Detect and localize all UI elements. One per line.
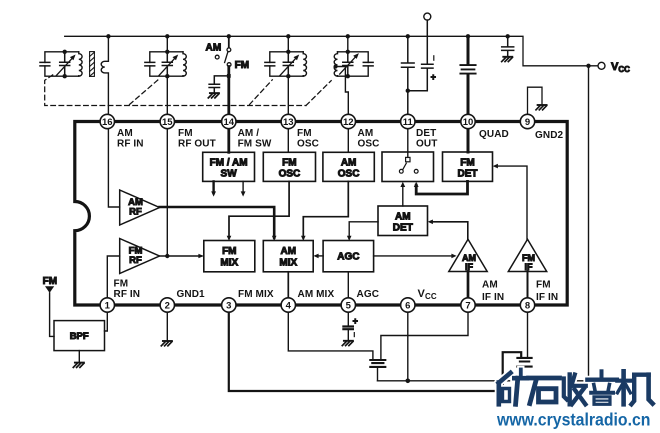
svg-text:AM: AM — [395, 211, 411, 222]
svg-text:FM / AM: FM / AM — [210, 158, 248, 169]
wire: pin 3 FM MIX out long run to FM filter (bold-ish) — [229, 305, 521, 391]
svg-text:7: 7 — [465, 301, 470, 312]
svg-text:FM: FM — [178, 128, 193, 139]
svg-text:AM: AM — [206, 42, 222, 53]
wire: AM DET out left to AGC (arrow down) — [349, 222, 378, 238]
switch S1 AM/FM — [228, 36, 230, 48]
svg-text:RF IN: RF IN — [117, 139, 144, 150]
wire: FM antenna to BPF — [50, 293, 54, 337]
wire: FM IF out to FM DET (arrow left) — [495, 166, 527, 239]
wire: pin 11 to det switch — [407, 129, 409, 158]
svg-text:4: 4 — [286, 301, 292, 312]
svg-text:9: 9 — [525, 117, 530, 128]
wire: AGC to pin 5 — [347, 272, 349, 305]
ground (GND2) — [536, 105, 547, 110]
ceramic filter CF2 (FM 10.7M) — [517, 358, 531, 367]
svg-text:MIX: MIX — [279, 258, 297, 269]
wire: Vcc feed down right side — [588, 66, 590, 381]
svg-text:10: 10 — [463, 117, 474, 128]
svg-text:RF: RF — [129, 207, 142, 218]
dashed gang-capacitor link — [45, 75, 332, 106]
svg-text:DET: DET — [458, 169, 478, 180]
svg-text:FM: FM — [536, 280, 551, 291]
wire: pin 7 to AM filter — [381, 305, 468, 359]
svg-text:IF: IF — [525, 262, 534, 272]
svg-text:RF OUT: RF OUT — [178, 139, 216, 150]
ground (C5) — [342, 341, 353, 346]
capacitor C5 electrolytic (AGC, pin 5) — [347, 305, 349, 340]
svg-text:FM: FM — [460, 158, 474, 169]
amplifier A1 AM RF (triangle) — [120, 190, 160, 225]
wire: pin 1 to BPF — [105, 305, 108, 331]
svg-text:FM: FM — [222, 246, 236, 257]
capacitor (FM tank fixed) — [145, 62, 155, 66]
amplifier A4 FM IF (triangle up) — [508, 239, 546, 271]
AM OSC tank T4: outline (coil left, cap right) — [338, 52, 369, 76]
block AM DET — [378, 206, 428, 236]
svg-text:OSC: OSC — [297, 139, 319, 150]
svg-text:AM /: AM / — [238, 128, 260, 139]
svg-text:OSC: OSC — [338, 169, 360, 180]
wire: SW control stub left (bold arrow) — [212, 181, 214, 193]
ceramic filter CF1 (AM 455k) — [370, 360, 385, 367]
svg-text:MIX: MIX — [220, 258, 238, 269]
svg-text:FM: FM — [43, 276, 58, 287]
block detector switch (pin 11) — [382, 152, 434, 182]
node: Vcc tee dot — [586, 64, 590, 68]
AM antenna tank T1: outline — [45, 52, 79, 76]
wire: coil tap to pin 12 (with jog) — [336, 67, 349, 115]
terminal: AF out open circle — [424, 13, 431, 20]
inductor L4 (FM OSC coil) — [303, 52, 306, 76]
svg-text:DET: DET — [393, 222, 413, 233]
svg-text:QUAD: QUAD — [479, 129, 509, 140]
wire: AM MIX to pin 4 — [287, 272, 289, 305]
wire: pin 14 to FM/AM SW (bold) — [227, 129, 230, 153]
svg-text:IF IN: IF IN — [536, 292, 558, 303]
discriminator X1 (quad detector element, bold) — [467, 36, 470, 114]
variable capacitor (FM tank) — [162, 52, 172, 76]
svg-text:12: 12 — [343, 117, 354, 128]
svg-text:FM: FM — [235, 60, 250, 71]
svg-text:+: + — [431, 72, 436, 82]
wire: AM DET out up to det switch (arrow) — [402, 185, 404, 206]
svg-text:AM: AM — [341, 158, 357, 169]
block AGC — [323, 241, 374, 272]
svg-text:OUT: OUT — [416, 139, 437, 150]
svg-text:FM MIX: FM MIX — [238, 289, 274, 300]
svg-text:AM: AM — [281, 246, 297, 257]
node: AM OSC tank junctions — [346, 50, 350, 54]
svg-text:GND1: GND1 — [177, 289, 206, 300]
svg-text:8: 8 — [525, 301, 530, 312]
node: FM OSC tank junctions — [286, 50, 290, 54]
amplifier A2 FM RF (triangle) — [120, 239, 160, 274]
svg-text:1: 1 — [105, 301, 111, 312]
svg-text:AM: AM — [482, 280, 498, 291]
wire: pin 1 to FM RF input — [107, 256, 119, 305]
svg-text:OSC: OSC — [358, 139, 380, 150]
wire: rail to AM OSC tank top — [347, 36, 349, 52]
svg-text:11: 11 — [403, 117, 414, 128]
pin name labels (bottom row) — [114, 279, 559, 304]
wire: AGC out to AM MIX (arrow left) — [316, 255, 323, 257]
wire: AM OSC out to AM MIX — [303, 181, 348, 237]
capacitor C1 (pin14 bypass) — [209, 76, 229, 92]
svg-text:5: 5 — [346, 301, 352, 312]
wire: FM OSC tank to pin 13 — [287, 36, 289, 114]
wire: pin 2 to ground — [166, 305, 168, 340]
node: pin6/bus junction — [406, 379, 411, 384]
capacitor (FM OSC fixed) — [265, 62, 275, 66]
svg-text:AGC: AGC — [357, 289, 380, 300]
node: rail junction dots — [106, 34, 510, 38]
variable capacitor (AM OSC) — [343, 52, 353, 76]
svg-text:FM: FM — [282, 158, 296, 169]
svg-text:15: 15 — [162, 117, 173, 128]
wire: pin 6 to Vcc bus — [407, 305, 409, 381]
node: AM tank top/bottom junctions — [62, 50, 66, 54]
svg-text:6: 6 — [405, 301, 410, 312]
svg-text:3: 3 — [226, 301, 231, 312]
wire: pin 13 to FM OSC — [287, 129, 289, 153]
ground (GND1) — [161, 341, 172, 346]
wire: pin 8 to FM IF — [527, 272, 529, 306]
inductor L1 (AM tank primary coil) — [79, 52, 82, 76]
svg-text:RF IN: RF IN — [114, 289, 141, 300]
svg-text:AM: AM — [117, 128, 133, 139]
node: FM tank junctions — [165, 50, 169, 54]
inductor L5 (AM OSC tapped coil) — [334, 52, 337, 76]
svg-text:FM SW: FM SW — [238, 139, 272, 150]
wire: AM IF out to AM DET (arrow left) — [430, 222, 468, 240]
svg-text:13: 13 — [283, 117, 294, 128]
capacitor (AM tank fixed) — [40, 62, 50, 66]
wire: AGC to AM IF (arrow right) — [374, 255, 454, 257]
pin circles — [100, 114, 535, 312]
svg-text:2: 2 — [165, 301, 170, 312]
wire: FM DET out to det switch (bold) — [416, 181, 467, 194]
block FM MIX — [204, 241, 255, 272]
svg-text:FM: FM — [114, 279, 129, 290]
block FM DET — [443, 152, 493, 181]
node: branch to decoupling cap — [227, 74, 231, 78]
wire: AM RF output to AM MIX (bold) — [160, 207, 275, 238]
wire: Vcc bus (filter commons) — [378, 380, 589, 382]
wire: pin 9 to ground — [528, 87, 543, 114]
label C3 polarity — [433, 56, 435, 60]
node: coil tap dot — [334, 64, 338, 68]
pin name labels (top row) — [117, 128, 564, 150]
ground (C1) — [208, 93, 219, 98]
IC body U1 outline with pin-1 notch — [75, 122, 567, 306]
wire: pin 16 to AM RF input — [108, 129, 119, 207]
block AM OSC — [323, 152, 374, 181]
svg-text:16: 16 — [102, 117, 113, 128]
wire: BPF to ground — [78, 351, 80, 362]
ground (BPF) — [73, 363, 84, 368]
capacitor C3 electrolytic (DET OUT coupling) — [408, 20, 433, 91]
svg-text:RF: RF — [129, 255, 142, 266]
node: pin11/electrolytic junction — [406, 89, 410, 93]
wire: pin 4 AM MIX out to AM filter — [288, 305, 373, 359]
svg-text:BPF: BPF — [70, 331, 89, 342]
block FM OSC — [263, 152, 315, 181]
wire: pin 10 to FM DET (bold) — [467, 129, 470, 152]
svg-text:GND2: GND2 — [535, 130, 564, 141]
svg-text:AM: AM — [358, 128, 374, 139]
ground (C4) — [502, 57, 513, 62]
ferrite core bar (hatched) — [90, 52, 95, 77]
svg-text:AGC: AGC — [337, 252, 359, 263]
wire: SW control stub right (arrow) — [242, 181, 244, 193]
wire: pin 7 to AM IF (bold) — [467, 272, 470, 306]
terminal Vcc open circle — [598, 62, 605, 69]
capacitor (AM OSC fixed) — [363, 62, 373, 66]
capacitor C4 (rail bypass) — [502, 36, 514, 56]
svg-text:FM: FM — [297, 128, 312, 139]
watermark 矿石收音机 (hand-drawn strokes) — [499, 370, 653, 405]
block FM/AM SW — [203, 152, 255, 181]
node: pin15 junction on FM RF line — [165, 254, 169, 258]
svg-text:SW: SW — [221, 169, 238, 180]
svg-text:14: 14 — [224, 117, 235, 128]
capacitor C2 (pin 11 to rail) — [402, 36, 415, 114]
svg-text:DET: DET — [416, 128, 436, 139]
wire: switch FM contact to pin 14 (bold) — [227, 67, 230, 115]
FM OSC tank T3: outline — [270, 52, 303, 76]
inductor L3 (FM tank coil) — [183, 52, 186, 76]
variable capacitor (FM OSC) — [283, 52, 293, 76]
svg-text:AM MIX: AM MIX — [298, 289, 335, 300]
svg-text:www.crystalradio.cn: www.crystalradio.cn — [496, 410, 650, 430]
wire: top Vcc rail — [65, 36, 598, 66]
FM antenna tank T2: outline — [150, 52, 183, 76]
wire: pin 8 to FM filter — [527, 305, 529, 357]
amplifier A3 AM IF (triangle up) — [449, 239, 487, 271]
wire: FM OSC out to FM MIX — [229, 181, 289, 237]
block BPF — [54, 321, 105, 351]
variable capacitor (AM tank) — [60, 52, 70, 76]
wire: FM tank to pin 15 — [166, 36, 168, 114]
block AM MIX — [263, 241, 313, 272]
antenna FM (filled triangle) — [45, 286, 54, 293]
inductor L2 (AM antenna secondary coil, in series to pin16) — [101, 36, 108, 114]
wire: FM RF output to FM MIX with pin 15 tap — [160, 255, 202, 257]
svg-text:OSC: OSC — [279, 169, 301, 180]
svg-text:+: + — [353, 316, 358, 326]
svg-text:IF IN: IF IN — [482, 292, 504, 303]
wire: pin 12 to AM OSC — [347, 129, 349, 153]
